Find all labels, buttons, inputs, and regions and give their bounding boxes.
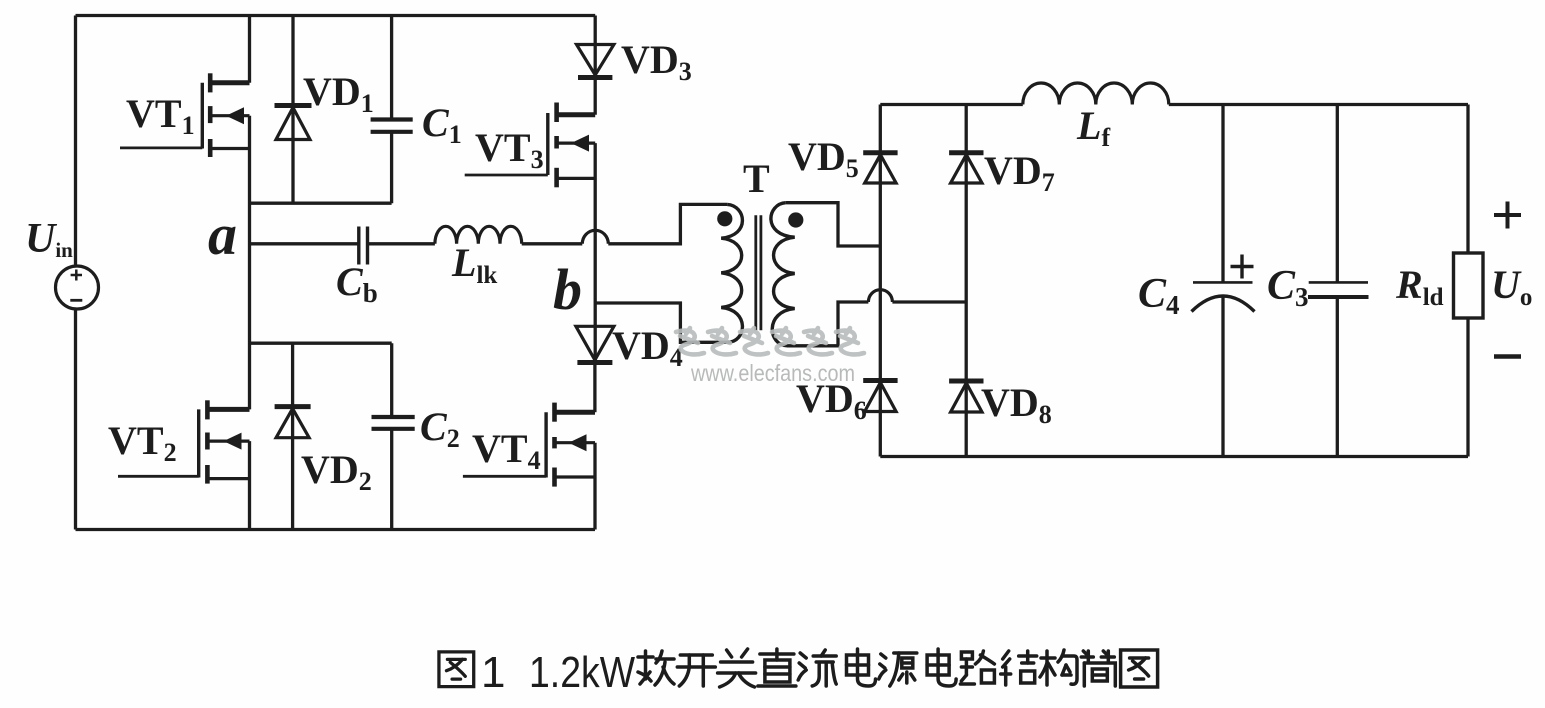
diode VD5 bbox=[863, 153, 897, 183]
svg-text:T: T bbox=[743, 156, 770, 201]
wire VD1 branch bbox=[291, 16, 294, 204]
label C4 plus bbox=[1231, 255, 1254, 279]
wire node a to Cb bbox=[250, 242, 359, 245]
wire Rld branch upper bbox=[1466, 105, 1469, 254]
wire hop over rectifier leg bbox=[868, 290, 892, 302]
transformer core bbox=[756, 215, 761, 330]
wire top rail bbox=[76, 14, 596, 17]
wire hop over right leg bbox=[582, 230, 608, 244]
transformer T primary winding bbox=[721, 204, 742, 342]
diode VD1 bbox=[275, 106, 312, 140]
wire C4 branch upper bbox=[1221, 105, 1224, 283]
inductor Llk bbox=[435, 226, 522, 244]
capacitor Cb bbox=[359, 227, 368, 265]
capacitor C3 bbox=[1308, 282, 1369, 297]
wire VT2 source bbox=[248, 441, 251, 529]
wire C3 branch upper bbox=[1336, 105, 1339, 283]
wire sec top rail to Lf bbox=[880, 103, 1023, 106]
wire Rld branch lower bbox=[1466, 318, 1469, 457]
svg-text:b: b bbox=[553, 257, 582, 322]
wire rectifier leg 1 bbox=[879, 105, 882, 457]
wire right leg upper bbox=[594, 16, 597, 115]
wire a to primary top bbox=[608, 204, 727, 243]
transistor VT4 bbox=[463, 403, 595, 487]
wire left rail upper bbox=[74, 16, 77, 267]
wire sec top rail right bbox=[1169, 103, 1468, 106]
voltage source Uin bbox=[56, 266, 99, 309]
inductor Lf bbox=[1023, 83, 1169, 105]
transformer secondary polarity dot bbox=[788, 212, 803, 227]
resistor Rld bbox=[1454, 253, 1484, 318]
capacitor C4 electrolytic bbox=[1192, 282, 1255, 311]
transistor VT3 bbox=[465, 103, 596, 188]
wire primary bottom to node b bbox=[595, 303, 727, 342]
diode VD2 bbox=[275, 407, 311, 438]
diode VD3 bbox=[577, 45, 614, 78]
diode VD4 bbox=[576, 326, 614, 362]
wire secondary top lead bbox=[786, 203, 881, 246]
diode VD6 bbox=[863, 381, 897, 412]
capacitor C1 bbox=[371, 120, 413, 132]
diode VD7 bbox=[949, 153, 983, 183]
svg-text:1: 1 bbox=[481, 648, 505, 697]
wire VT1 drain bbox=[248, 16, 251, 83]
wire sec bottom rail bbox=[880, 455, 1468, 458]
capacitor C2 bbox=[372, 417, 415, 429]
diode VD8 bbox=[949, 381, 983, 412]
wire C2 branch lower bbox=[390, 429, 393, 530]
svg-text:www.elecfans.com: www.elecfans.com bbox=[690, 360, 855, 386]
wire VD4 to VT4 bbox=[593, 363, 596, 413]
transistor VT1 bbox=[120, 73, 250, 157]
wire snubber top connector bbox=[250, 202, 392, 205]
wire secondary bottom lead bbox=[788, 302, 869, 346]
wire VT4 source bbox=[593, 443, 596, 530]
transformer primary polarity dot bbox=[717, 211, 732, 226]
caption figure title bbox=[439, 652, 474, 687]
wire C3 branch lower bbox=[1336, 297, 1339, 457]
svg-text:a: a bbox=[208, 202, 237, 267]
transformer T secondary winding bbox=[771, 203, 795, 346]
label output plus bbox=[1494, 202, 1521, 229]
svg-text:1.2kW: 1.2kW bbox=[529, 648, 635, 697]
wire VD2 branch bbox=[291, 343, 294, 529]
wire VT1 source to VT2 drain bbox=[248, 116, 251, 410]
wire C4 branch lower bbox=[1221, 297, 1224, 457]
wire snubber bottom connector bbox=[250, 342, 392, 345]
wire bottom rail bbox=[76, 528, 596, 531]
transistor VT2 bbox=[118, 400, 250, 483]
wire rectifier leg 2 bbox=[965, 105, 968, 457]
wire C1 branch lower bbox=[390, 132, 393, 203]
wire left rail lower bbox=[74, 309, 77, 530]
wire C2 branch upper bbox=[390, 343, 393, 417]
wire VT3 source to VD4 bbox=[594, 143, 597, 362]
wire secondary lead to VD7 leg bbox=[892, 300, 966, 303]
wire Cb to Llk bbox=[368, 242, 435, 245]
label output minus bbox=[1494, 354, 1521, 359]
wire C1 branch upper bbox=[390, 16, 393, 120]
watermark bbox=[676, 328, 864, 354]
wire Llk to hop bbox=[522, 242, 583, 245]
